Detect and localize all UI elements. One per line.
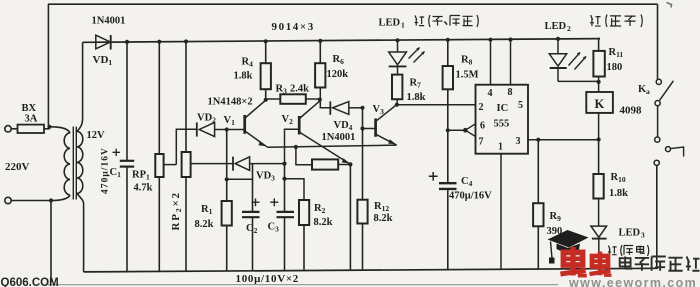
switch Ka arm xyxy=(660,81,674,101)
svg-text:120k: 120k xyxy=(327,69,349,80)
wire bus tap down xyxy=(296,147,312,165)
svg-text:8.2k: 8.2k xyxy=(314,217,333,228)
svg-text:3: 3 xyxy=(516,136,521,147)
wire VD2 to V1 base xyxy=(215,129,244,131)
transformer T primary winding xyxy=(64,133,70,195)
svg-text:1.8k: 1.8k xyxy=(609,188,628,199)
LED LED3 xyxy=(591,226,607,269)
wire RP1 wiper link xyxy=(164,164,177,166)
wire +12V rail xyxy=(83,39,600,43)
label VD4 xyxy=(334,120,353,132)
svg-text:K: K xyxy=(595,97,605,111)
page bottom line xyxy=(48,284,558,286)
label V1 xyxy=(224,115,236,127)
switch contact 4 xyxy=(654,160,659,165)
svg-text:2.4k: 2.4k xyxy=(290,84,309,95)
plug contact xyxy=(666,147,684,157)
LED1 arrows xyxy=(409,47,425,62)
diode VD3 1N4148 xyxy=(233,157,250,171)
page corner mark xyxy=(667,3,672,8)
potentiometer RP2 xyxy=(182,152,191,177)
label R11 xyxy=(607,47,624,73)
relay K coil xyxy=(586,92,613,113)
label 470u/16V (rotated) xyxy=(101,147,111,194)
svg-text:7: 7 xyxy=(479,137,484,148)
label V3 xyxy=(373,104,385,116)
wire C3 branch xyxy=(284,164,286,272)
label VD2 xyxy=(197,113,216,125)
switch Ka upper contact xyxy=(656,79,661,84)
resistor R7 1.8k xyxy=(392,75,402,100)
wire tap to R2 xyxy=(285,179,305,200)
wire R2 to ground xyxy=(303,225,305,271)
label LED1 xyxy=(379,18,406,30)
wire RP2 branch xyxy=(185,42,187,272)
label + (C4) xyxy=(429,172,438,181)
svg-text:4: 4 xyxy=(488,88,493,99)
wire V2 collector up xyxy=(319,88,321,101)
label 1N4001 (VD1) xyxy=(92,16,126,27)
node pin3/R9 xyxy=(536,138,540,142)
resistor R11 180 xyxy=(593,51,604,77)
node pins67 tap xyxy=(446,128,450,132)
LED LED2 xyxy=(549,54,566,82)
wire R5 to V2 emitter node xyxy=(338,164,350,166)
node bus tap xyxy=(294,145,298,149)
node rail R6 xyxy=(318,39,322,43)
label 470u/16V xyxy=(449,191,492,202)
svg-text:1N4001: 1N4001 xyxy=(92,16,126,27)
node rail C1 xyxy=(125,40,129,44)
wire right frame vertical (to Ka contact) xyxy=(657,4,659,79)
svg-text:IC: IC xyxy=(497,103,509,114)
watermark dianzi xiazaizhan xyxy=(620,257,700,271)
label red (under/over voltage) xyxy=(415,15,479,27)
svg-text:6: 6 xyxy=(480,121,485,132)
svg-text:www.eeworm.com: www.eeworm.com xyxy=(568,276,697,287)
svg-text:1N4148×2: 1N4148×2 xyxy=(208,97,253,108)
wire pin1 to ground xyxy=(500,154,502,270)
svg-text:Q606.COM: Q606.COM xyxy=(1,277,59,287)
label R2 xyxy=(314,203,333,228)
wire pin3 out xyxy=(528,139,599,141)
transformer T secondary winding xyxy=(77,131,83,193)
wire R8 to C4 xyxy=(447,89,449,270)
label LED3 xyxy=(619,228,646,240)
svg-text:220V: 220V xyxy=(5,161,30,173)
wire transformer primary bottom lead xyxy=(51,195,70,201)
wire VD3 anode to node xyxy=(250,163,285,165)
label pin 7 xyxy=(479,137,484,148)
label 9014x3 xyxy=(272,21,315,33)
wire R10 branch xyxy=(598,140,600,175)
label 1N4148x2 xyxy=(208,97,253,108)
svg-text:9014×3: 9014×3 xyxy=(272,21,315,33)
resistor R8 1.5M xyxy=(443,66,453,89)
wire LED2 cathode to K node xyxy=(558,80,599,82)
label VD3 xyxy=(256,171,275,183)
node V2 collector xyxy=(318,98,322,102)
svg-text:2: 2 xyxy=(567,24,571,33)
svg-text:1N4001: 1N4001 xyxy=(322,132,356,143)
label VD1 xyxy=(93,54,113,67)
label pin 3 xyxy=(516,136,521,147)
node junction fuse/frame xyxy=(47,125,51,129)
wire R10 to LED3 xyxy=(598,199,600,227)
label C2 xyxy=(246,223,258,235)
svg-text:8.2k: 8.2k xyxy=(195,219,214,230)
node R11/LED2/K xyxy=(597,80,601,84)
wire R3 to V2 collector node xyxy=(306,98,319,100)
svg-text:1.5M: 1.5M xyxy=(456,70,479,81)
svg-text:BX: BX xyxy=(22,103,37,114)
wire to V3 base xyxy=(363,128,376,130)
wire left frame vertical xyxy=(47,4,49,127)
wire K to pin3 node xyxy=(598,113,600,140)
resistor R6 120k xyxy=(315,63,325,87)
node VD3 anode xyxy=(282,162,286,166)
svg-text:470μ/16V: 470μ/16V xyxy=(101,147,111,194)
resistor R5 (emitter) xyxy=(312,159,338,169)
wire pin4 to rail xyxy=(490,40,492,85)
svg-text:LED: LED xyxy=(619,228,641,239)
label C1 xyxy=(110,167,122,179)
wire R7 to V3 collector xyxy=(396,99,398,105)
wire V2 emitter to ground xyxy=(349,164,351,271)
label 100u/10Vx2 xyxy=(236,273,300,285)
fuse BX 3A xyxy=(18,125,50,133)
watermark bug char 1 xyxy=(560,247,586,276)
svg-text:5: 5 xyxy=(518,100,523,111)
wire jog R1 to C2 xyxy=(227,178,253,180)
label pin 4 xyxy=(488,88,493,99)
svg-text:1: 1 xyxy=(498,142,503,153)
switch Ka lower contact xyxy=(655,101,660,106)
wire N junction down xyxy=(50,201,52,283)
label C4 xyxy=(461,176,473,188)
label pin 5 xyxy=(518,100,523,111)
wire R8 top xyxy=(447,40,449,66)
label R12 xyxy=(374,201,393,224)
node rail RP1 xyxy=(157,40,161,44)
resistor R9 390 xyxy=(533,203,543,226)
node rail LED1 xyxy=(395,38,399,42)
svg-text:8: 8 xyxy=(508,87,513,98)
svg-text:100μ/10V×2: 100μ/10V×2 xyxy=(236,273,300,285)
wire R12 to ground xyxy=(362,224,364,272)
diode VD1 1N4001 xyxy=(96,35,111,50)
node rail LED2 xyxy=(556,37,560,41)
wire secondary bottom lead to ground rail xyxy=(77,194,84,272)
wire R4node to R3 xyxy=(266,98,281,100)
node V2 emitter xyxy=(348,162,352,166)
wire C1 branch xyxy=(126,42,128,272)
label R7 xyxy=(407,78,426,104)
transistor V2 9014 xyxy=(299,101,350,165)
label pin 2 xyxy=(479,102,484,113)
node rail pin8 xyxy=(508,38,512,42)
wire emitter bus xyxy=(268,145,397,147)
label 4098 xyxy=(620,105,643,117)
label R8 xyxy=(456,55,479,81)
label V2 xyxy=(282,114,294,126)
resistor R2 8.2k xyxy=(299,200,309,225)
resistor R1 8.2k xyxy=(222,201,232,226)
watermark graduation cap xyxy=(548,230,589,264)
wire C2 branch xyxy=(252,164,254,272)
wire Ka to contact3 xyxy=(657,106,659,137)
svg-text:470μ/16V: 470μ/16V xyxy=(449,191,492,202)
svg-text:1.8k: 1.8k xyxy=(407,92,426,103)
label R10 xyxy=(609,172,628,199)
label R3 2.4k xyxy=(276,84,310,96)
switch contact 3 xyxy=(655,137,660,142)
wire pins 6/7 link xyxy=(448,129,466,131)
label R1 xyxy=(195,204,214,230)
svg-text:a: a xyxy=(646,87,650,96)
capacitor C1 plates xyxy=(120,161,134,167)
svg-text:4098: 4098 xyxy=(620,105,643,117)
label K xyxy=(595,97,605,111)
node rail pin4 xyxy=(488,38,492,42)
diode VD2 1N4148 xyxy=(197,122,215,136)
watermark bug char 2 xyxy=(590,252,612,276)
svg-text:LED: LED xyxy=(545,21,567,32)
node junction N xyxy=(49,198,53,202)
label Q606.COM xyxy=(1,277,59,287)
label pin 1 xyxy=(498,142,503,153)
label + (C2) xyxy=(252,198,260,206)
LED LED1 xyxy=(389,52,407,75)
label green (normal) xyxy=(590,15,642,28)
wire R1 branch xyxy=(226,130,228,272)
node V3 base tap xyxy=(360,126,364,130)
svg-text:LED: LED xyxy=(379,18,401,29)
wire wiper tap to VD2 xyxy=(176,129,196,164)
potentiometer RP1 xyxy=(155,154,163,177)
label RP2x2 (rotated) xyxy=(170,191,183,230)
svg-text:8.2k: 8.2k xyxy=(374,213,393,224)
label R4 xyxy=(234,57,254,82)
svg-text:180: 180 xyxy=(607,62,623,73)
wire R4 branch xyxy=(265,41,267,100)
wire top frame rail xyxy=(48,3,658,5)
label 220V xyxy=(5,161,30,173)
wire RP1 branch xyxy=(158,42,160,272)
label RP1 xyxy=(132,170,153,194)
resistor R4 1.8k xyxy=(261,63,271,89)
label LED2 xyxy=(545,21,572,33)
wire VD4 anode to node xyxy=(349,107,363,109)
wire ground rail xyxy=(84,268,658,272)
node K/R10/pin3 xyxy=(597,137,601,141)
svg-text:1: 1 xyxy=(401,21,405,30)
label BX 3A xyxy=(22,103,38,125)
resistor R3 2.4k xyxy=(280,94,306,104)
node rail R4 xyxy=(264,39,268,43)
svg-text:3A: 3A xyxy=(25,114,38,125)
node V1 base / R1 xyxy=(225,127,229,131)
wire V2 base drop xyxy=(285,129,299,163)
wire R6 branch xyxy=(319,41,321,63)
node input terminal L xyxy=(5,126,11,132)
node V3 collector xyxy=(395,103,399,107)
LED2 arrows xyxy=(569,52,587,70)
wire terminal N to junction xyxy=(11,200,51,202)
transistor V1 9014 xyxy=(245,100,268,147)
wire LED1 anode xyxy=(397,40,399,52)
wire R9 branch xyxy=(537,140,539,270)
node C3/R2 tap xyxy=(282,177,286,181)
wire to pin6 pin7 xyxy=(465,124,475,137)
label + (C1) xyxy=(113,149,121,156)
svg-text:3: 3 xyxy=(641,231,645,240)
node rail R8 xyxy=(446,38,450,42)
label R9 xyxy=(547,211,563,237)
node input terminal N xyxy=(5,197,11,203)
node rail RP2 xyxy=(184,39,188,43)
wire LED2 anode xyxy=(557,39,559,54)
wire VD4 node down xyxy=(362,108,364,200)
watermark www.eeworm.com xyxy=(568,276,697,287)
label 1N4001 (VD4) xyxy=(322,132,356,143)
node V1 collector xyxy=(264,98,268,102)
node R1/C2 jog xyxy=(225,177,229,181)
svg-text:555: 555 xyxy=(494,119,510,130)
label IC 555 xyxy=(494,103,510,130)
transformer T core xyxy=(73,127,76,200)
wire V3 collector to IC pin2 xyxy=(397,104,476,106)
wire pin8 to rail xyxy=(510,40,512,85)
op-amp IC 555 box xyxy=(476,85,529,154)
diode VD4 1N4001 xyxy=(330,101,349,114)
svg-text:4.7k: 4.7k xyxy=(134,183,153,194)
wire rail corner to R11 xyxy=(599,39,600,51)
transistor V3 9014 xyxy=(376,105,397,146)
svg-text:2: 2 xyxy=(479,102,484,113)
wire terminal to fuse xyxy=(11,128,17,130)
resistor R10 1.8k xyxy=(593,174,603,199)
wire secondary top lead to +rail xyxy=(77,42,83,131)
resistor R12 8.2k xyxy=(357,200,367,224)
capacitor C2 plates xyxy=(242,212,260,217)
wire R11 to K xyxy=(598,77,600,93)
capacitor C3 plates xyxy=(277,212,295,217)
wire RP2 to VD3 xyxy=(191,163,233,165)
label Ka xyxy=(638,84,650,96)
label + (C3) xyxy=(270,198,278,206)
label C3 xyxy=(268,222,280,234)
label pin 6 xyxy=(480,121,485,132)
label R6 120k xyxy=(327,54,349,80)
wire V2 collector to VD4 xyxy=(320,101,330,108)
node 6/7 junction xyxy=(463,128,468,133)
label 12V xyxy=(87,130,106,141)
wire contact4 down to ground xyxy=(656,166,658,269)
wire fuse to transformer primary xyxy=(50,127,71,133)
svg-text:12V: 12V xyxy=(87,130,106,141)
label red (delay) xyxy=(608,245,649,256)
capacitor C4 plates xyxy=(439,183,457,189)
svg-text:1.8k: 1.8k xyxy=(234,71,253,82)
label pin 8 xyxy=(508,87,513,98)
node VD4 anode xyxy=(360,106,364,110)
